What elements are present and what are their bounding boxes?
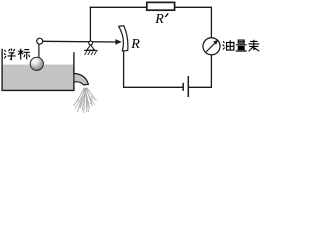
svg-text:R: R: [154, 12, 164, 27]
label 量: [236, 40, 247, 51]
svg-text:R: R: [130, 37, 140, 52]
fulcrum base line: [84, 49, 98, 51]
label 标: [18, 49, 30, 60]
resistor R': [147, 2, 175, 10]
rheostat R curved track: [119, 26, 128, 51]
wire: top rail left segment: [90, 6, 147, 8]
fuel/liquid fill: [3, 65, 74, 91]
label 浮 (float): [4, 49, 16, 60]
meter needle: [206, 43, 215, 52]
label 表: [248, 40, 259, 52]
label R': [154, 12, 168, 27]
battery long plate (+): [187, 76, 189, 97]
wire: top rail right segment: [175, 6, 212, 8]
outflow spray: [74, 88, 97, 114]
meter: fuel gauge body: [203, 38, 220, 55]
lever arrowhead: [115, 39, 121, 45]
fulcrum support triangle: [87, 45, 95, 50]
float rod: [38, 44, 40, 57]
battery short plate (-): [182, 83, 184, 91]
float ball: [30, 57, 43, 70]
fulcrum hatching: [85, 51, 97, 55]
fuel tank: [2, 49, 74, 91]
wire: pivot up to top rail: [89, 7, 91, 41]
hinge joint: [37, 38, 43, 44]
drain spout: [74, 73, 89, 85]
wire: meter bottom down to battery: [189, 55, 211, 88]
lever arm (wiper): [43, 40, 118, 43]
fulcrum pivot: [89, 41, 93, 45]
wire: battery to bottom-left corner and up to rheostat: [124, 51, 183, 87]
meter needle arrowhead: [213, 40, 218, 45]
wire: right drop to meter: [210, 7, 212, 38]
label 油 (oil): [223, 40, 234, 50]
